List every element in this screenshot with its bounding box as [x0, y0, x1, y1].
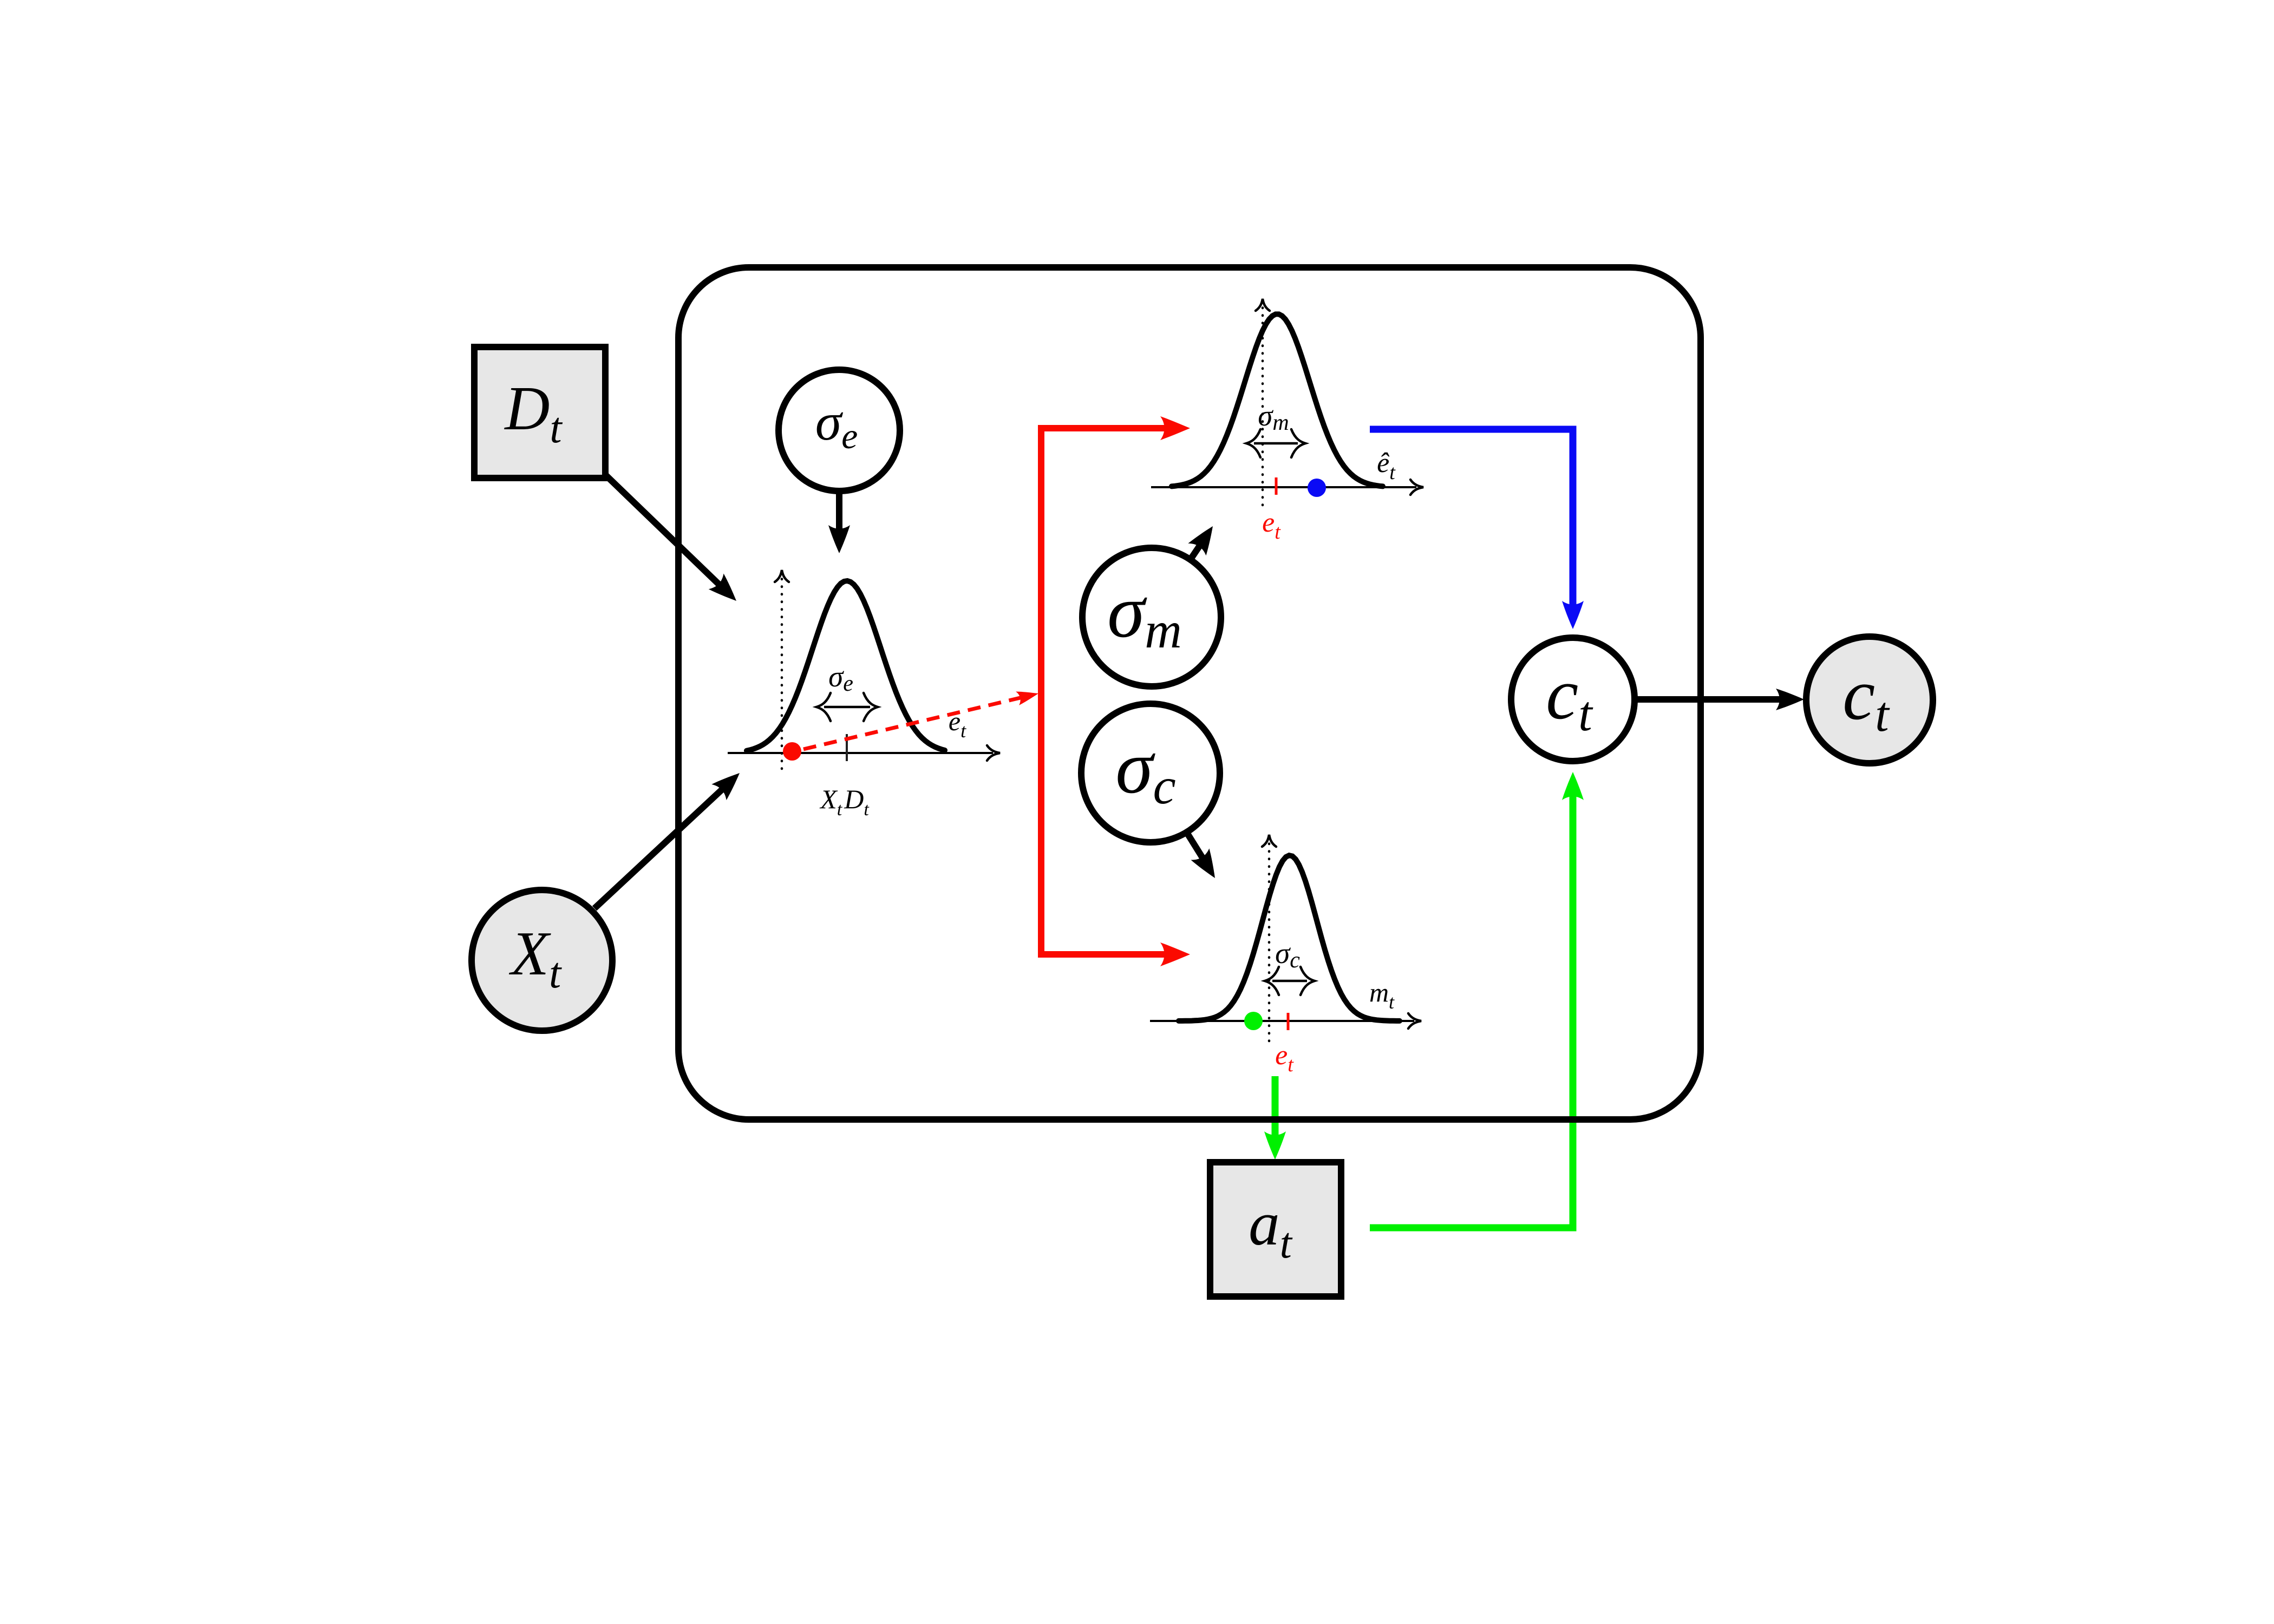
- cue distribution plot: gaussian curve sigma_c: [1179, 855, 1400, 1021]
- node a_t (action square): [1210, 1162, 1341, 1296]
- node D_t (input square): [474, 347, 605, 478]
- measurement distribution plot: blue sample dot e-hat_t: [1308, 479, 1326, 497]
- blue wire: e-hat_t estimate to c_t node: [1370, 429, 1584, 629]
- node sigma_e (parameter circle): [779, 370, 900, 491]
- green wire: a_t box to c_t node: [1370, 772, 1584, 1228]
- error distribution plot: x axis: [728, 745, 1000, 761]
- arrow: X_t node toward error distribution: [594, 765, 747, 908]
- error distribution plot: red sample dot e_t: [783, 742, 801, 761]
- green arrow: cue distribution sample to a_t box: [1264, 1076, 1286, 1160]
- arrow: sigma_c node down toward cue distribution: [1187, 833, 1224, 884]
- measurement distribution plot: red mean tick e_t: [1275, 477, 1278, 495]
- node sigma_c (parameter circle): [1081, 704, 1220, 842]
- cue distribution plot: green sample dot m_t: [1244, 1012, 1263, 1030]
- node sigma_m (parameter circle): [1082, 548, 1221, 686]
- cue distribution plot: x axis: [1150, 1013, 1421, 1029]
- node c_t output (gray circle): [1806, 637, 1933, 763]
- node c_t (combined estimate circle): [1511, 638, 1635, 761]
- error distribution plot: gaussian curve sigma_e: [747, 581, 945, 751]
- enclosing rounded rectangle (model boundary): [678, 267, 1701, 1119]
- cue distribution plot: sigma_c width double arrow: [1265, 967, 1315, 995]
- cue distribution plot: dotted y axis: [1262, 835, 1276, 1041]
- measurement distribution plot: x axis: [1151, 480, 1423, 495]
- red splitter bracket feeding both distributions: [1041, 416, 1190, 966]
- measurement distribution plot: gaussian curve sigma_m: [1172, 314, 1383, 486]
- cue distribution plot: red mean tick e_t: [1287, 1013, 1290, 1030]
- arrow: D_t box into enclosure toward error distribution: [605, 475, 744, 608]
- measurement distribution plot: sigma_m width double arrow: [1246, 429, 1305, 457]
- measurement distribution plot: dotted y axis: [1256, 299, 1270, 505]
- error distribution plot: dotted y axis: [775, 570, 789, 769]
- error distribution plot: sigma_e width double arrow: [816, 693, 878, 721]
- arrow: sigma_e node down to error distribution: [828, 492, 850, 553]
- red dashed arrow: sampled e_t to splitter: [803, 686, 1040, 749]
- arrow: c_t node to output c_t node: [1635, 689, 1804, 710]
- error distribution plot: mean tick X_t D_t: [846, 734, 848, 761]
- node X_t (input circle): [472, 890, 612, 1031]
- arrow: sigma_m node up toward measurement distribution: [1188, 520, 1221, 559]
